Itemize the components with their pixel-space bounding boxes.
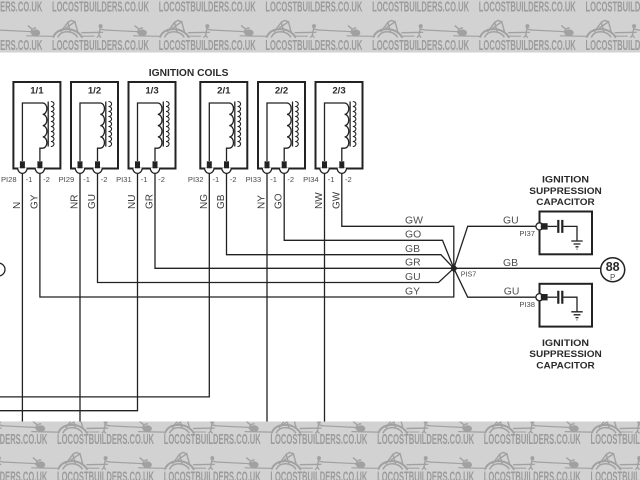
wire NG — [0, 173, 209, 397]
svg-text:IGNITION: IGNITION — [542, 175, 589, 185]
svg-text:-2: -2 — [43, 175, 50, 184]
svg-text:-2: -2 — [230, 175, 237, 184]
ignition coil 2/3 (PI34) — [316, 82, 363, 169]
svg-text:-2: -2 — [345, 175, 352, 184]
svg-text:PI32: PI32 — [188, 175, 204, 184]
svg-text:CAPACITOR: CAPACITOR — [536, 360, 595, 370]
svg-text:LOCOSTBUILDERS.CO.UK: LOCOSTBUILDERS.CO.UK — [377, 469, 474, 480]
svg-text:LOCOSTBUILDERS.CO.UK: LOCOSTBUILDERS.CO.UK — [52, 38, 149, 54]
svg-text:NY: NY — [257, 195, 268, 209]
ignition coil 1/3 (PI31) — [129, 82, 176, 169]
svg-text:GU: GU — [405, 272, 421, 283]
svg-text:LOCOSTBUILDERS.CO.UK: LOCOSTBUILDERS.CO.UK — [591, 469, 640, 480]
ground — [571, 241, 582, 249]
svg-text:GB: GB — [503, 258, 518, 269]
svg-text:LOCOSTBUILDERS.CO.UK: LOCOSTBUILDERS.CO.UK — [270, 469, 367, 480]
svg-text:PI31: PI31 — [116, 175, 132, 184]
svg-text:LOCOSTBUILDERS.CO.UK: LOCOSTBUILDERS.CO.UK — [591, 432, 640, 448]
svg-text:-1: -1 — [270, 175, 277, 184]
svg-text:LOCOSTBUILDERS.CO.UK: LOCOSTBUILDERS.CO.UK — [52, 0, 149, 15]
ignition coil 1/2 (PI29) — [71, 82, 118, 169]
svg-text:1/3: 1/3 — [145, 86, 158, 97]
svg-text:-1: -1 — [141, 175, 148, 184]
svg-text:LOCOSTBUILDERS.CO.UK: LOCOSTBUILDERS.CO.UK — [164, 469, 261, 480]
svg-text:-2: -2 — [287, 175, 294, 184]
svg-text:GB: GB — [216, 194, 227, 209]
svg-text:NU: NU — [127, 195, 138, 209]
wire GU — [98, 173, 454, 282]
ignition coil 1/1 (PI28) — [13, 82, 60, 169]
wire GB — [227, 173, 454, 268]
svg-text:GW: GW — [331, 191, 342, 209]
svg-text:LOCOSTBUILDERS.CO.UK: LOCOSTBUILDERS.CO.UK — [265, 0, 362, 15]
left edge connector circle — [0, 263, 5, 276]
svg-text:PI28: PI28 — [1, 175, 17, 184]
connector socket PI37 — [536, 223, 543, 230]
svg-text:GO: GO — [405, 230, 421, 241]
svg-text:2/1: 2/1 — [217, 86, 231, 97]
svg-text:-1: -1 — [328, 175, 335, 184]
svg-text:88: 88 — [606, 260, 620, 274]
pin PI37 — [541, 223, 548, 229]
svg-text:LOCOSTBUILDERS.CO.UK: LOCOSTBUILDERS.CO.UK — [586, 38, 640, 54]
svg-text:LOCOSTBUILDERS.CO.UK: LOCOSTBUILDERS.CO.UK — [484, 432, 581, 448]
connector sockets PI29 — [75, 168, 85, 174]
svg-text:-1: -1 — [26, 175, 33, 184]
pins -1 / -2 of PI34 — [322, 161, 327, 168]
wire GU to PI38 — [454, 268, 536, 297]
wire NU — [0, 173, 138, 410]
connector sockets PI34 — [320, 168, 330, 174]
pins -1 / -2 of PI31 — [135, 161, 140, 168]
capacitor symbol — [548, 291, 583, 320]
svg-text:LOCOSTBUILDERS.CO.UK: LOCOSTBUILDERS.CO.UK — [57, 469, 154, 480]
svg-text:1/2: 1/2 — [88, 86, 101, 97]
wire GO — [284, 173, 454, 268]
svg-text:PIS7: PIS7 — [461, 269, 477, 278]
svg-text:LOCOSTBUILDERS.CO.UK: LOCOSTBUILDERS.CO.UK — [377, 432, 474, 448]
ignition suppression capacitor PI37 — [540, 212, 593, 255]
svg-text:LOCOSTBUILDERS.CO.UK: LOCOSTBUILDERS.CO.UK — [0, 469, 48, 480]
svg-text:LOCOSTBUILDERS.CO.UK: LOCOSTBUILDERS.CO.UK — [0, 38, 43, 54]
pins -1 / -2 of PI29 — [78, 161, 83, 168]
svg-text:PI29: PI29 — [59, 175, 75, 184]
svg-text:GR: GR — [405, 258, 421, 269]
connector sockets PI32 — [205, 168, 215, 174]
bottom watermark band — [0, 416, 640, 480]
svg-text:LOCOSTBUILDERS.CO.UK: LOCOSTBUILDERS.CO.UK — [586, 0, 640, 15]
svg-text:IGNITION: IGNITION — [542, 338, 589, 348]
svg-text:LOCOSTBUILDERS.CO.UK: LOCOSTBUILDERS.CO.UK — [484, 469, 581, 480]
capacitor symbol — [548, 220, 583, 249]
splice node PIS7 — [450, 264, 458, 272]
svg-text:-1: -1 — [83, 175, 90, 184]
svg-text:LOCOSTBUILDERS.CO.UK: LOCOSTBUILDERS.CO.UK — [479, 38, 576, 54]
svg-text:LOCOSTBUILDERS.CO.UK: LOCOSTBUILDERS.CO.UK — [270, 432, 367, 448]
ignition coil 2/1 (PI32) — [200, 82, 247, 169]
svg-text:GY: GY — [29, 194, 40, 209]
wire GB to connector 88 — [454, 267, 601, 269]
pin PI38 — [541, 294, 548, 300]
svg-text:SUPPRESSION: SUPPRESSION — [529, 349, 602, 359]
svg-text:GO: GO — [274, 193, 285, 209]
svg-text:LOCOSTBUILDERS.CO.UK: LOCOSTBUILDERS.CO.UK — [372, 0, 469, 15]
svg-text:GU: GU — [87, 194, 98, 209]
wire NY — [266, 173, 268, 421]
wire NR — [79, 173, 81, 421]
svg-text:LOCOSTBUILDERS.CO.UK: LOCOSTBUILDERS.CO.UK — [57, 432, 154, 448]
svg-text:LOCOSTBUILDERS.CO.UK: LOCOSTBUILDERS.CO.UK — [372, 38, 469, 54]
connector sockets PI31 — [133, 168, 143, 174]
svg-text:GW: GW — [405, 216, 423, 227]
svg-text:LOCOSTBUILDERS.CO.UK: LOCOSTBUILDERS.CO.UK — [159, 0, 256, 15]
ignition coil 2/2 (PI33) — [258, 82, 305, 169]
ground — [571, 312, 582, 320]
svg-text:LOCOSTBUILDERS.CO.UK: LOCOSTBUILDERS.CO.UK — [0, 0, 43, 15]
svg-text:NG: NG — [199, 194, 210, 209]
connector sockets PI33 — [262, 168, 272, 174]
svg-text:CAPACITOR: CAPACITOR — [536, 197, 595, 207]
svg-text:-2: -2 — [101, 175, 108, 184]
svg-text:PI33: PI33 — [246, 175, 262, 184]
wire NW — [324, 173, 326, 421]
svg-text:PI37: PI37 — [519, 229, 535, 238]
svg-text:NR: NR — [70, 195, 81, 209]
pins -1 / -2 of PI32 — [207, 161, 212, 168]
svg-text:IGNITION COILS: IGNITION COILS — [149, 68, 229, 79]
connector socket PI38 — [536, 294, 543, 301]
svg-text:GU: GU — [503, 215, 519, 226]
svg-text:LOCOSTBUILDERS.CO.UK: LOCOSTBUILDERS.CO.UK — [265, 38, 362, 54]
off-page connector 88 — [601, 258, 625, 282]
svg-text:SUPPRESSION: SUPPRESSION — [529, 186, 602, 196]
svg-text:1/1: 1/1 — [30, 86, 44, 97]
wire GU to PI37 — [454, 226, 536, 268]
svg-text:LOCOSTBUILDERS.CO.UK: LOCOSTBUILDERS.CO.UK — [164, 432, 261, 448]
pins -1 / -2 of PI33 — [265, 161, 270, 168]
svg-text:GU: GU — [504, 286, 520, 297]
svg-text:PI34: PI34 — [303, 175, 319, 184]
svg-text:LOCOSTBUILDERS.CO.UK: LOCOSTBUILDERS.CO.UK — [159, 38, 256, 54]
connector sockets PI28 — [18, 168, 28, 174]
wire GR — [155, 173, 454, 268]
svg-text:-1: -1 — [213, 175, 220, 184]
svg-text:2/3: 2/3 — [332, 86, 345, 97]
pins -1 / -2 of PI28 — [20, 161, 25, 168]
svg-text:N: N — [12, 202, 23, 209]
wire GW — [342, 173, 454, 268]
top watermark band — [0, 0, 640, 54]
svg-text:-2: -2 — [158, 175, 165, 184]
svg-text:PI38: PI38 — [519, 300, 535, 309]
svg-text:NW: NW — [314, 192, 325, 209]
svg-text:P: P — [610, 273, 615, 282]
wire GY — [40, 173, 454, 297]
svg-text:GY: GY — [405, 286, 420, 297]
wire N — [21, 173, 23, 421]
svg-text:LOCOSTBUILDERS.CO.UK: LOCOSTBUILDERS.CO.UK — [479, 0, 576, 15]
svg-text:GB: GB — [405, 244, 420, 255]
svg-text:2/2: 2/2 — [275, 86, 288, 97]
svg-text:LOCOSTBUILDERS.CO.UK: LOCOSTBUILDERS.CO.UK — [0, 432, 48, 448]
svg-text:GR: GR — [145, 194, 156, 209]
ignition suppression capacitor PI38 — [540, 284, 593, 327]
